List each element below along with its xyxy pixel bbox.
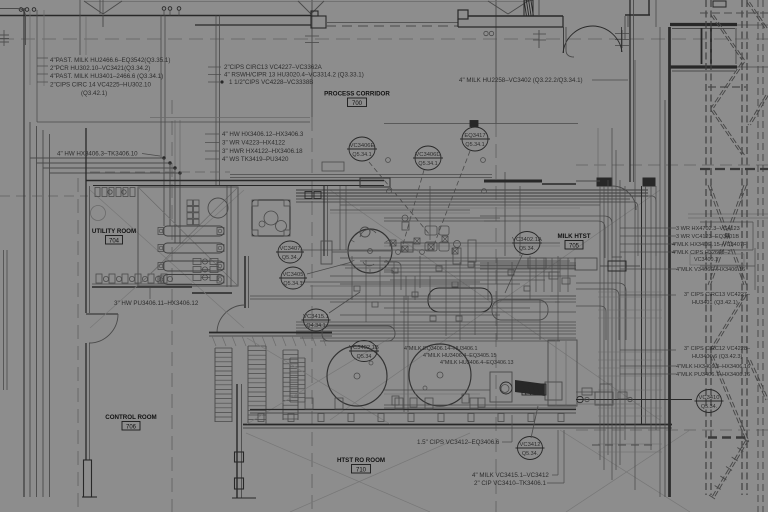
svg-text:VC3406E: VC3406E: [350, 143, 375, 149]
svg-text:VC3407: VC3407: [280, 246, 301, 252]
svg-text:VC3402.1A: VC3402.1A: [512, 237, 542, 243]
svg-text:4"MILK EQ3406.14–HU3406.1: 4"MILK EQ3406.14–HU3406.1: [404, 346, 478, 352]
svg-text:4"MLK CIPS H32660–2: 4"MLK CIPS H32660–2: [672, 250, 731, 256]
svg-text:Q5.34.1: Q5.34.1: [465, 142, 484, 148]
svg-text:4" HW HX3406.3–TK3406.10: 4" HW HX3406.3–TK3406.10: [57, 151, 138, 158]
svg-text:4" HW HX3406.12–HX3406.3: 4" HW HX3406.12–HX3406.3: [222, 131, 304, 138]
svg-text:2"PCR HU302.10–VC3421(Q3.34.2: 2"PCR HU302.10–VC3421(Q3.34.2): [50, 65, 150, 72]
svg-text:HU3401 (Q3.42.1): HU3401 (Q3.42.1): [692, 300, 738, 306]
svg-text:704: 704: [109, 238, 120, 244]
svg-text:Q5.34.1: Q5.34.1: [283, 281, 302, 287]
svg-text:HTST RO ROOM: HTST RO ROOM: [337, 457, 385, 464]
svg-text:700: 700: [352, 101, 363, 107]
svg-text:4"MLK HX3406.3–HX3406.16: 4"MLK HX3406.3–HX3406.16: [676, 364, 750, 370]
svg-text:4"PAST. MILK HU3401–2466.6: 4"PAST. MILK HU3401–2466.6 (Q3.34.1): [50, 73, 163, 80]
svg-text:(Q3.42.1): (Q3.42.1): [81, 90, 107, 97]
svg-text:Q5.34.: Q5.34.: [519, 246, 535, 252]
svg-text:3 WR VC4123–EQ3401B: 3 WR VC4123–EQ3401B: [676, 234, 739, 240]
svg-text:1.5" CIPS VC3412–EQ3406.6: 1.5" CIPS VC3412–EQ3406.6: [417, 439, 500, 446]
svg-text:Q5.34.: Q5.34.: [701, 404, 717, 410]
svg-text:VC3406D: VC3406D: [415, 152, 440, 158]
svg-text:4"MLK HX34DE.15–VC3407F: 4"MLK HX34DE.15–VC3407F: [672, 242, 747, 248]
svg-text:4"MILK HU3406.4–EQ3405.15: 4"MILK HU3406.4–EQ3405.15: [423, 353, 497, 359]
svg-text:Q5.34.: Q5.34.: [522, 451, 538, 457]
svg-text:4"MILK HU3406.4–EQ3406.13: 4"MILK HU3406.4–EQ3406.13: [440, 360, 514, 366]
svg-text:705: 705: [569, 243, 580, 249]
svg-text:3" HW PU3406.11–HX3406.12: 3" HW PU3406.11–HX3406.12: [114, 300, 199, 307]
svg-text:2"CIPS CIRC 14 VC4225–HU302: 2"CIPS CIRC 14 VC4225–HU302.10: [50, 82, 151, 89]
svg-text:VC3415.1: VC3415.1: [303, 314, 329, 320]
svg-text:UTILITY ROOM: UTILITY ROOM: [92, 228, 136, 235]
svg-text:Q5.34.1: Q5.34.1: [418, 161, 437, 167]
svg-text:PROCESS CORRIDOR: PROCESS CORRIDOR: [324, 91, 390, 98]
svg-text:VC3410: VC3410: [699, 395, 720, 401]
svg-text:VC3400.1: VC3400.1: [694, 257, 718, 263]
svg-text:4" WS TK3419–PU3420: 4" WS TK3419–PU3420: [222, 156, 289, 163]
svg-text:4" RSWH/CIPR 13 HU3020.4–VC: 4" RSWH/CIPR 13 HU3020.4–VC3314.2 (Q3.33…: [224, 72, 364, 79]
svg-text:3" WR V4223–HX4122: 3" WR V4223–HX4122: [222, 140, 286, 147]
svg-text:Q5.34: Q5.34: [357, 354, 372, 360]
svg-text:2" CIP VC3410–TK3406.1: 2" CIP VC3410–TK3406.1: [474, 480, 546, 487]
svg-text:Q5.34.: Q5.34.: [282, 255, 298, 261]
svg-text:3 WR HX4702.3–VC4123: 3 WR HX4702.3–VC4123: [676, 226, 740, 232]
svg-text:4" MILK HU2258–VC3402 (Q3.2: 4" MILK HU2258–VC3402 (Q3.22.2/Q3.34.1): [459, 77, 583, 84]
svg-text:VC3402.1B: VC3402.1B: [349, 345, 379, 351]
svg-text:4" MILK VC3415.1–VC3412: 4" MILK VC3415.1–VC3412: [472, 472, 549, 479]
svg-text:Q4.34.1: Q4.34.1: [306, 323, 325, 329]
svg-text:3" CIPS CIRC13 VC4227–: 3" CIPS CIRC13 VC4227–: [684, 292, 751, 298]
svg-text:3" HWR HX4122–HX3406.18: 3" HWR HX4122–HX3406.18: [222, 148, 303, 155]
svg-text:4"MLK V3406E–HX3406.16: 4"MLK V3406E–HX3406.16: [676, 267, 745, 273]
svg-text:MILK HTST: MILK HTST: [558, 233, 591, 240]
svg-text:710: 710: [356, 467, 367, 473]
svg-text:2"CIPS CIRC13 VC4227–VC3362A: 2"CIPS CIRC13 VC4227–VC3362A: [224, 64, 323, 71]
svg-text:4"PAST. MILK HU2466.6–EQ3542: 4"PAST. MILK HU2466.6–EQ3542(Q3.35.1): [50, 57, 170, 64]
svg-text:VC3412: VC3412: [520, 442, 541, 448]
svg-text:706: 706: [126, 424, 137, 430]
svg-text:CONTROL ROOM: CONTROL ROOM: [105, 414, 156, 421]
svg-text:3" CIPS CIRC12 VC4228–: 3" CIPS CIRC12 VC4228–: [684, 346, 751, 352]
svg-text:1 1/2"CIPS VC4228–VC3338B: 1 1/2"CIPS VC4228–VC3338B: [229, 79, 313, 86]
svg-text:HU3406.6 (Q3.42.3): HU3406.6 (Q3.42.3): [692, 354, 743, 360]
svg-text:Q5.34.1: Q5.34.1: [352, 152, 371, 158]
svg-text:EQ3417: EQ3417: [464, 133, 485, 139]
svg-text:4"MLK PU3406.7–HX3406.16: 4"MLK PU3406.7–HX3406.16: [676, 372, 750, 378]
svg-text:VC3405: VC3405: [283, 272, 304, 278]
